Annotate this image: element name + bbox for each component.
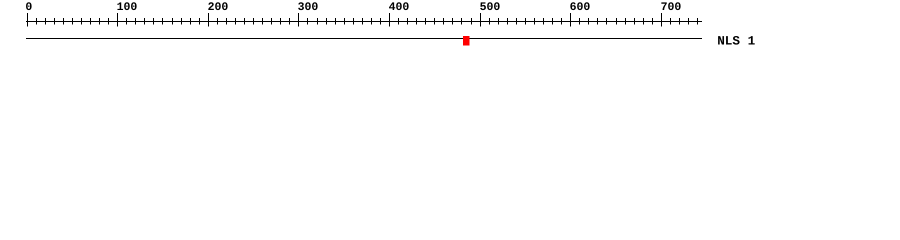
minor tick 340 bbox=[335, 18, 337, 25]
minor tick 180 bbox=[190, 18, 192, 25]
minor tick 250 bbox=[253, 18, 255, 25]
minor tick 380 bbox=[371, 18, 373, 25]
ruler axis line bbox=[26, 21, 702, 22]
minor tick 120 bbox=[135, 18, 137, 25]
minor tick 150 bbox=[162, 18, 164, 25]
minor tick 240 bbox=[244, 18, 246, 25]
minor tick 160 bbox=[172, 18, 174, 25]
minor tick 360 bbox=[353, 18, 355, 25]
major tick 400 bbox=[389, 13, 391, 27]
minor tick 490 bbox=[471, 18, 473, 25]
minor tick 350 bbox=[344, 18, 346, 25]
minor tick 60 bbox=[81, 18, 83, 25]
major tick 500 bbox=[480, 13, 482, 27]
major tick 0 bbox=[27, 13, 29, 27]
minor tick 280 bbox=[280, 18, 282, 25]
minor tick 190 bbox=[199, 18, 201, 25]
minor tick 410 bbox=[398, 18, 400, 25]
minor tick 260 bbox=[262, 18, 264, 25]
minor tick 420 bbox=[407, 18, 409, 25]
major tick 100 bbox=[117, 13, 119, 27]
NLS 1 red marker bbox=[463, 36, 470, 45]
minor tick 450 bbox=[434, 18, 436, 25]
minor tick 50 bbox=[72, 18, 74, 25]
minor tick 620 bbox=[588, 18, 590, 25]
major tick 200 bbox=[208, 13, 210, 27]
minor tick 70 bbox=[90, 18, 92, 25]
major tick 300 bbox=[298, 13, 300, 27]
svg-text:600: 600 bbox=[570, 1, 591, 14]
minor tick 660 bbox=[625, 18, 627, 25]
minor tick 510 bbox=[489, 18, 491, 25]
svg-text:400: 400 bbox=[389, 1, 410, 14]
svg-text:200: 200 bbox=[208, 1, 229, 14]
minor tick 710 bbox=[670, 18, 672, 25]
svg-text:0: 0 bbox=[25, 1, 32, 14]
minor tick 570 bbox=[543, 18, 545, 25]
minor tick 720 bbox=[679, 18, 681, 25]
minor tick 130 bbox=[144, 18, 146, 25]
minor tick 210 bbox=[217, 18, 219, 25]
minor tick 80 bbox=[99, 18, 101, 25]
minor tick 730 bbox=[688, 18, 690, 25]
minor tick 90 bbox=[108, 18, 110, 25]
svg-text:100: 100 bbox=[117, 1, 138, 14]
minor tick 460 bbox=[443, 18, 445, 25]
minor tick 440 bbox=[425, 18, 427, 25]
minor tick 110 bbox=[126, 18, 128, 25]
minor tick 430 bbox=[416, 18, 418, 25]
feature track line bbox=[26, 38, 702, 39]
minor tick 140 bbox=[153, 18, 155, 25]
svg-text:500: 500 bbox=[480, 1, 501, 14]
minor tick 550 bbox=[525, 18, 527, 25]
minor tick 670 bbox=[634, 18, 636, 25]
minor tick 650 bbox=[616, 18, 618, 25]
minor tick 590 bbox=[561, 18, 563, 25]
minor tick 540 bbox=[516, 18, 518, 25]
minor tick 370 bbox=[362, 18, 364, 25]
minor tick 170 bbox=[181, 18, 183, 25]
minor tick 530 bbox=[507, 18, 509, 25]
minor tick 220 bbox=[226, 18, 228, 25]
minor tick 290 bbox=[289, 18, 291, 25]
svg-text:NLS 1: NLS 1 bbox=[717, 33, 755, 48]
minor tick 640 bbox=[606, 18, 608, 25]
minor tick 40 bbox=[63, 18, 65, 25]
minor tick 320 bbox=[317, 18, 319, 25]
minor tick 560 bbox=[534, 18, 536, 25]
major tick 600 bbox=[570, 13, 572, 27]
svg-text:700: 700 bbox=[661, 1, 682, 14]
minor tick 270 bbox=[271, 18, 273, 25]
svg-text:300: 300 bbox=[298, 1, 319, 14]
minor tick 470 bbox=[452, 18, 454, 25]
minor tick 30 bbox=[54, 18, 56, 25]
minor tick 480 bbox=[461, 18, 463, 25]
minor tick 680 bbox=[643, 18, 645, 25]
minor tick 630 bbox=[597, 18, 599, 25]
minor tick 20 bbox=[45, 18, 47, 25]
minor tick 10 bbox=[36, 18, 38, 25]
minor tick 610 bbox=[579, 18, 581, 25]
minor tick 310 bbox=[307, 18, 309, 25]
minor tick 580 bbox=[552, 18, 554, 25]
major tick 700 bbox=[661, 13, 663, 27]
minor tick 230 bbox=[235, 18, 237, 25]
minor tick 330 bbox=[326, 18, 328, 25]
minor tick 390 bbox=[380, 18, 382, 25]
minor tick 740 bbox=[697, 18, 699, 25]
minor tick 690 bbox=[652, 18, 654, 25]
minor tick 520 bbox=[498, 18, 500, 25]
